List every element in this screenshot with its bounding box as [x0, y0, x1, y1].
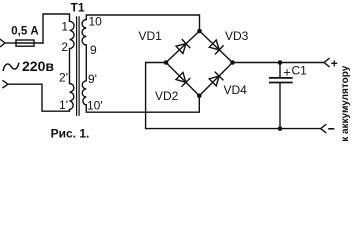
- svg-text:220в: 220в: [22, 58, 54, 74]
- svg-text:T1: T1: [70, 1, 84, 15]
- svg-text:VD2: VD2: [155, 89, 179, 103]
- wire bridge left to minus rail: [146, 63, 321, 129]
- wire secondary pin10' to bridge bottom: [86, 96, 199, 112]
- capacitor C1: [270, 63, 292, 129]
- wire fuse to primary pin 1: [43, 14, 70, 43]
- label VD1: [139, 29, 163, 43]
- svg-text:VD3: VD3: [225, 29, 249, 43]
- svg-text:9: 9: [90, 43, 97, 57]
- output terminal plus: [324, 59, 329, 67]
- label VD2: [155, 89, 179, 103]
- capacitor plus mark: [283, 64, 291, 79]
- node bridge right: [230, 60, 235, 65]
- transformer secondary winding section 9'-10': [82, 81, 86, 105]
- svg-text:+: +: [331, 56, 338, 70]
- label minus: [329, 128, 334, 130]
- label VD4: [224, 83, 248, 97]
- bridge edge wire top-right: [200, 31, 233, 63]
- label C1: [292, 64, 308, 78]
- caption Рис. 1.: [51, 127, 90, 141]
- diode VD2: [176, 72, 190, 86]
- wire secondary pin10 to bridge top: [86, 15, 199, 31]
- pin label 10': [87, 99, 103, 113]
- label 0,5 А: [11, 26, 39, 38]
- transformer core: [77, 17, 80, 115]
- pin label 9': [88, 72, 97, 86]
- diode VD4: [209, 72, 223, 86]
- svg-text:C1: C1: [292, 64, 308, 78]
- svg-text:2': 2': [59, 71, 68, 85]
- pin label 1': [59, 98, 68, 112]
- transformer primary winding section 1-2: [70, 21, 75, 48]
- pin label 9: [90, 43, 97, 57]
- label 220в: [22, 58, 54, 74]
- svg-text:9': 9': [88, 72, 97, 86]
- diode VD1: [176, 40, 190, 54]
- transformer T1 label: [70, 1, 84, 15]
- bridge edge wire left-top: [166, 31, 200, 63]
- node capacitor bottom junction: [278, 126, 283, 131]
- bridge edge wire left-bottom: [166, 63, 199, 96]
- diode VD3: [209, 40, 223, 54]
- transformer primary winding section 2'-1': [70, 84, 74, 110]
- pin label 2': [59, 71, 68, 85]
- svg-text:10': 10': [87, 99, 103, 113]
- label plus: [331, 56, 338, 70]
- transformer secondary winding section 10-9: [82, 20, 86, 46]
- input terminal bottom: [3, 81, 8, 88]
- input terminal top: [1, 40, 6, 47]
- node capacitor top junction: [278, 60, 283, 65]
- wire bridge right to plus terminal: [233, 62, 325, 64]
- pin label 1: [61, 20, 68, 34]
- svg-text:1': 1': [59, 98, 68, 112]
- AC source symbol: [3, 63, 19, 70]
- svg-text:1: 1: [61, 20, 68, 34]
- wire bottom terminal to primary pin 1': [8, 84, 70, 111]
- pin label 2: [61, 40, 68, 54]
- svg-text:+: +: [283, 64, 291, 79]
- wire link pin2 to pin2': [69, 49, 71, 84]
- wire terminal to fuse: [5, 42, 16, 44]
- svg-text:10: 10: [89, 15, 103, 29]
- label к аккумулятору: [340, 65, 351, 142]
- fuse FU1: [16, 40, 43, 46]
- svg-text:2: 2: [61, 40, 68, 54]
- svg-text:0,5 А: 0,5 А: [11, 26, 39, 38]
- svg-text:VD1: VD1: [139, 29, 163, 43]
- node bridge top: [197, 29, 202, 34]
- svg-text:Рис. 1.: Рис. 1.: [51, 127, 90, 141]
- node bridge bottom: [197, 94, 202, 99]
- svg-text:к аккумулятору: к аккумулятору: [340, 65, 351, 142]
- svg-text:VD4: VD4: [224, 83, 248, 97]
- node bridge left: [164, 60, 169, 65]
- pin label 10: [89, 15, 103, 29]
- output terminal minus: [321, 125, 326, 133]
- label VD3: [225, 29, 249, 43]
- bridge edge wire bottom-right: [199, 63, 232, 96]
- wire link pin9 to pin9': [85, 45, 87, 81]
